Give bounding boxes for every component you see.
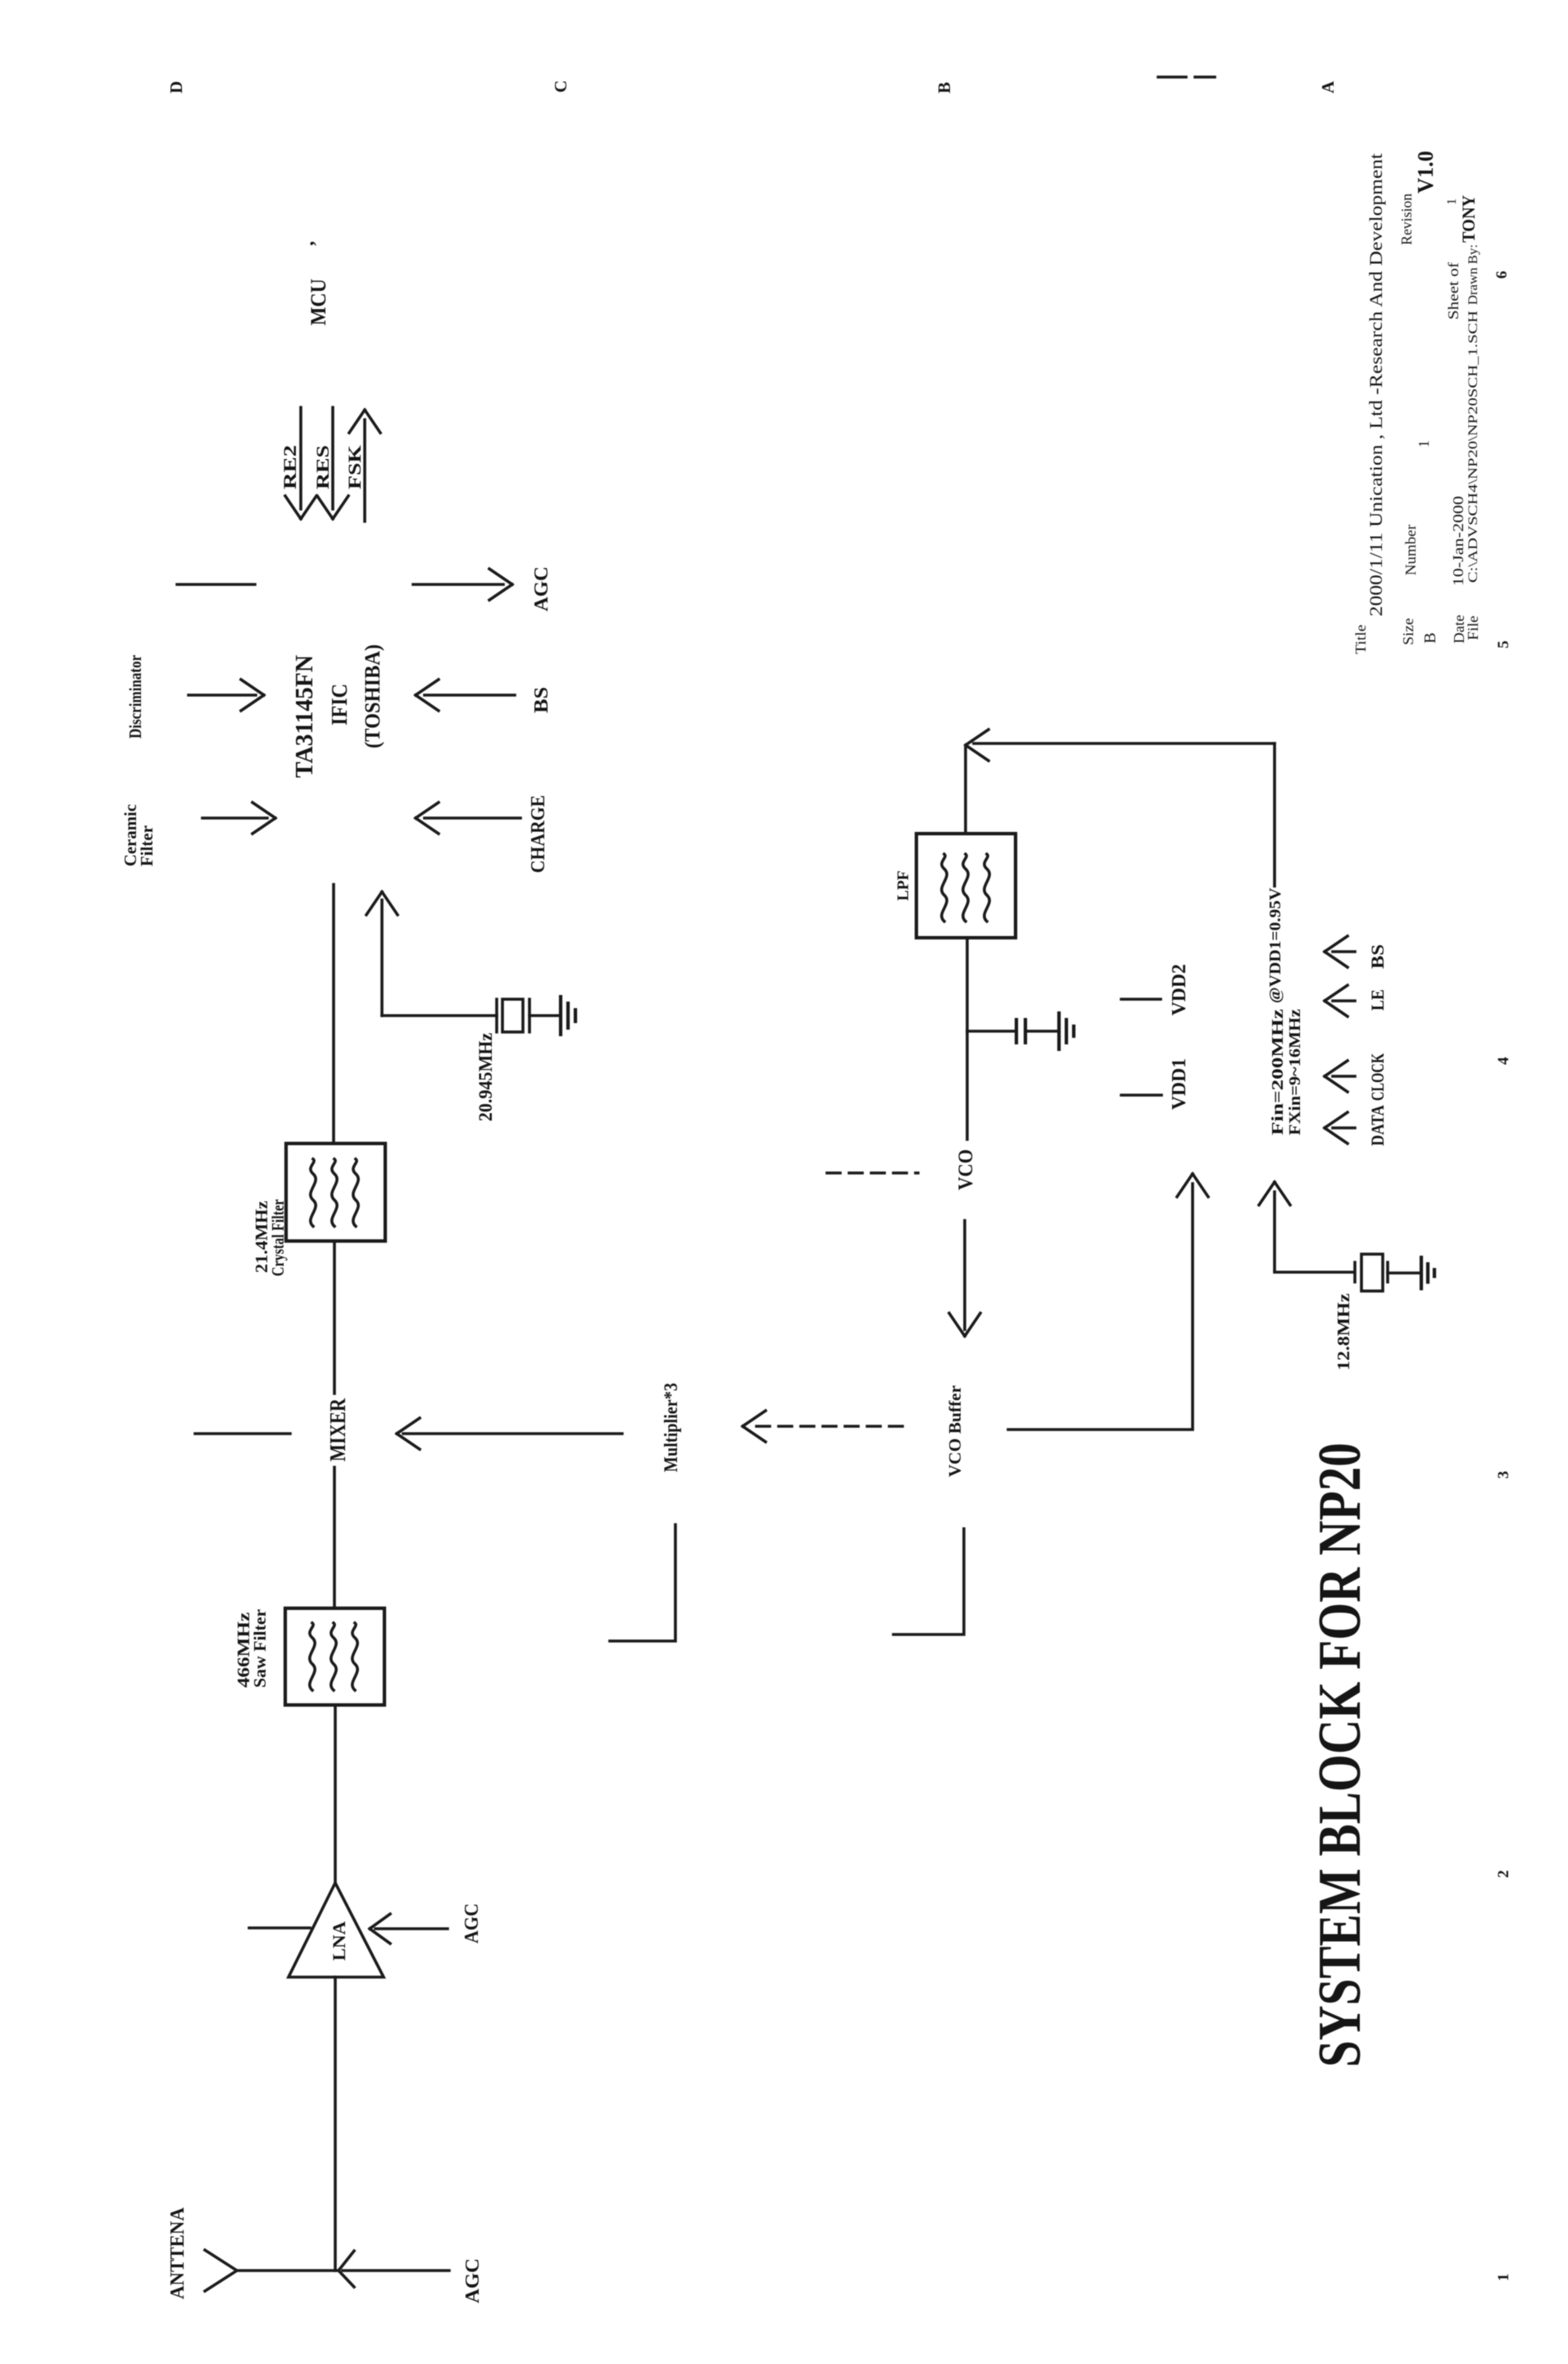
svg-text:MCU: MCU [307,279,330,325]
wire: dashed VCO stub [827,1171,918,1175]
svg-text:RES: RES [312,445,333,489]
capacitor C1 [1016,1020,1025,1043]
wire: DATA arrow [1325,1112,1355,1143]
wire: multiplier corner bracket [610,1525,675,1641]
svg-text:1: 1 [1495,2274,1512,2282]
wire crystal to ground [1388,1271,1420,1275]
svg-text:FSK: FSK [344,445,365,489]
svg-text:1: 1 [1416,440,1432,448]
svg-text:Size: Size [1400,618,1416,645]
svg-text:Revision: Revision [1398,193,1415,245]
wire antenna to LNA [334,1977,337,2271]
svg-text:V1.0: V1.0 [1413,151,1438,193]
wire: capacitor branch from VCO line [967,1030,1014,1033]
svg-text:LE: LE [1367,989,1388,1011]
svg-text:File: File [1465,616,1481,640]
svg-text:20.945MHz: 20.945MHz [475,1033,496,1121]
svg-text:ANTTENA: ANTTENA [167,2207,189,2299]
pin stub top of IFIC [177,583,255,586]
ground (12.8MHz crystal) [1421,1257,1434,1289]
svg-text:(TOSHIBA): (TOSHIBA) [361,644,384,748]
svg-text:FXin=9~16MHz: FXin=9~16MHz [1286,1009,1304,1135]
wire MIXER to crystal filter [333,1241,336,1393]
wire: FSK arrow to MCU [349,410,380,521]
svg-text:BS: BS [1367,944,1388,969]
svg-text:IFIC: IFIC [327,684,352,725]
svg-text:Filter: Filter [137,825,157,866]
svg-text:D: D [166,81,186,93]
svg-text:6: 6 [1493,271,1511,280]
svg-text:VCO Buffer: VCO Buffer [945,1385,965,1477]
amplifier LNA [289,1883,384,1977]
wire: arrow VCO to VCO Buffer [949,1221,980,1336]
pin stub on LNA top edge [249,1926,310,1930]
wire: RES arrow to IFIC [317,407,348,519]
svg-text:Drawn By:: Drawn By: [1466,244,1480,305]
wire: ceramic filter arrow into IFIC [202,802,275,834]
filter block: 466MHz Saw Filter [285,1608,384,1705]
wire: feedback riser with arrow to LPF line [966,730,1275,761]
svg-text:Crystal Filter: Crystal Filter [268,1199,288,1276]
wire: LE arrow [1325,985,1355,1016]
svg-text:10-Jan-2000: 10-Jan-2000 [1450,496,1466,586]
svg-text:B: B [934,82,954,93]
crystal Y1 20.945MHz [497,999,529,1032]
pin stub VDD2 [1121,998,1161,1001]
svg-text:,: , [297,241,318,246]
svg-text:C:\ADVSCH4\NP20\NP20SCH_1.SCH: C:\ADVSCH4\NP20\NP20SCH_1.SCH [1466,310,1480,583]
wire: BS arrow [1325,936,1355,967]
svg-text:CHARGE: CHARGE [528,795,549,873]
svg-text:2000/1/11 Unication , Ltd -Re: 2000/1/11 Unication , Ltd -Research And … [1366,153,1386,616]
wire: dashed arrow VCO Buffer to Multiplier [743,1411,902,1442]
wire: AGC arrow out of IFIC [413,569,512,600]
svg-text:MIXER: MIXER [325,1398,350,1462]
ground (20.945MHz crystal) [561,997,575,1034]
svg-text:C: C [551,80,570,93]
svg-text:Saw Filter: Saw Filter [250,1609,270,1688]
svg-text:RE2: RE2 [280,445,300,489]
svg-text:1: 1 [1445,198,1459,205]
wire LNA to SAW filter [334,1705,337,1883]
svg-text:Multiplier*3: Multiplier*3 [661,1383,681,1472]
svg-text:@VDD1=0.95V: @VDD1=0.95V [1266,887,1284,1003]
wire LPF output [964,748,967,834]
wire: LO injection arrow up into MIXER [397,1418,622,1449]
wire FXin line with right arrow [1259,1182,1290,1271]
svg-text:VDD2: VDD2 [1169,964,1190,1016]
wire: BS arrow into IFIC [416,680,515,711]
svg-text:Sheet of: Sheet of [1445,262,1461,320]
svg-text:CLOCK: CLOCK [1367,1053,1388,1101]
svg-text:TA31145FN: TA31145FN [289,655,318,778]
wire Fin line right segment [1273,743,1276,886]
wire crystal filter to IFIC [332,884,335,1143]
wire: VCO buffer corner bracket [893,1529,964,1634]
filter block: LPF [916,834,1016,938]
wire: local oscillator arrow into IFIC [366,892,398,1016]
pin stub above mixer [195,1432,290,1435]
svg-text:Fin=200MHz: Fin=200MHz [1269,1009,1287,1135]
pin stub VDD1 [1121,1093,1161,1097]
crystal Y2 12.8MHz [1355,1254,1388,1291]
wire: CLOCK arrow [1325,1061,1355,1092]
svg-text:TONY: TONY [1458,195,1479,243]
border tick marks right edge [1158,75,1215,79]
svg-text:3: 3 [1495,1471,1512,1480]
wire VCO to LPF [966,938,969,1139]
wire down to 12.8MHz crystal [1275,1271,1352,1274]
wire SAW to MIXER [333,1467,336,1608]
svg-text:AGC: AGC [531,566,552,611]
wire capacitor to ground [1025,1030,1058,1033]
svg-text:Number: Number [1402,525,1419,575]
svg-text:B: B [1421,633,1439,643]
svg-text:AGC: AGC [461,1903,483,1943]
svg-text:BS: BS [531,687,552,713]
wire LO down to crystal [382,1014,497,1017]
svg-text:A: A [1318,80,1338,93]
wire: CHARGE arrow into IFIC [416,802,520,834]
antenna symbol [205,2250,338,2291]
ground (VCO line capacitor) [1059,1013,1074,1049]
svg-text:VDD1: VDD1 [1169,1058,1190,1110]
wire: discriminator arrow into IFIC [189,680,264,711]
wire: RE2 arrow to IFIC [285,407,316,519]
svg-text:SYSTEM BLOCK FOR NP20: SYSTEM BLOCK FOR NP20 [1307,1443,1374,2067]
svg-text:LNA: LNA [329,1921,349,1961]
svg-text:DATA: DATA [1367,1105,1388,1146]
wire: AGC arrow into LNA [370,1914,448,1943]
svg-text:Title: Title [1352,625,1369,654]
wire: AGC into antenna node [339,2251,449,2287]
svg-text:2: 2 [1495,1871,1512,1879]
filter block: 21.4MHz Crystal Filter [286,1143,385,1241]
svg-text:12.8MHz: 12.8MHz [1334,1293,1353,1371]
svg-text:Discriminator: Discriminator [125,655,145,739]
wire VCO buffer down and right to VDD1 arrow [1008,1174,1208,1430]
svg-text:5: 5 [1495,641,1512,649]
svg-text:4: 4 [1495,1057,1512,1065]
svg-text:VCO: VCO [955,1149,977,1190]
svg-text:AGC: AGC [462,2258,484,2303]
wire crystal to ground [529,1014,560,1017]
svg-text:LPF: LPF [894,871,912,901]
